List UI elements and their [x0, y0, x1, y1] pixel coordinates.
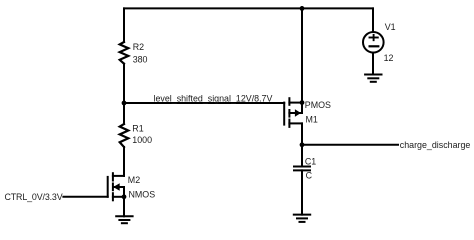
svg-text:level_shifted_signal_12V/8.7V: level_shifted_signal_12V/8.7V — [154, 93, 273, 103]
svg-text:380: 380 — [133, 54, 148, 64]
wire node to R1 — [123, 103, 125, 124]
wire M2 source to ground — [123, 197, 125, 217]
svg-text:CTRL_0V/3.3V: CTRL_0V/3.3V — [5, 192, 63, 202]
resistor R1 — [120, 124, 129, 147]
ground V1 — [365, 75, 381, 82]
svg-text:1000: 1000 — [132, 135, 152, 145]
transistor M1 (PMOS) — [284, 98, 302, 127]
voltage source V1 — [363, 32, 384, 53]
capacitor C1 — [294, 167, 310, 171]
wire PMOS source from rail — [301, 8, 303, 102]
ground M2 — [116, 216, 132, 223]
wire R1 to M2 drain — [123, 147, 125, 176]
svg-text:C1: C1 — [305, 157, 316, 167]
wire rail to V1 — [372, 8, 374, 32]
svg-text:M1: M1 — [306, 115, 318, 125]
svg-text:R1: R1 — [132, 124, 143, 134]
svg-text:PMOS: PMOS — [305, 100, 331, 110]
node PMOS source/body junction — [300, 100, 305, 105]
node M2 source junction — [122, 194, 127, 199]
svg-text:C: C — [306, 170, 313, 180]
svg-text:charge_discharge: charge_discharge — [400, 140, 471, 150]
svg-text:12: 12 — [384, 53, 394, 63]
node junction top rail — [300, 6, 305, 11]
resistor R2 — [120, 42, 129, 64]
transistor M2 (NMOS) — [108, 173, 124, 200]
wire V1 to ground — [372, 53, 374, 75]
node charge_discharge junction — [300, 142, 305, 147]
svg-text:V1: V1 — [385, 22, 396, 32]
wire top rail — [124, 7, 373, 9]
wire level_shifted node horizontal — [124, 102, 284, 104]
svg-text:M2: M2 — [128, 175, 140, 185]
svg-text:R2: R2 — [133, 42, 144, 52]
ground C1 — [294, 215, 310, 222]
wire charge_discharge — [302, 144, 398, 146]
wire left branch upper — [123, 8, 125, 42]
wire C1 to ground — [301, 170, 303, 214]
svg-text:NMOS: NMOS — [129, 190, 156, 200]
wire gate M2 from CTRL — [63, 196, 107, 198]
wire node to C1 — [301, 145, 303, 167]
wire M1 drain down — [301, 123, 303, 144]
node level_shifted junction — [122, 101, 127, 106]
wire R2 to node — [123, 64, 125, 103]
